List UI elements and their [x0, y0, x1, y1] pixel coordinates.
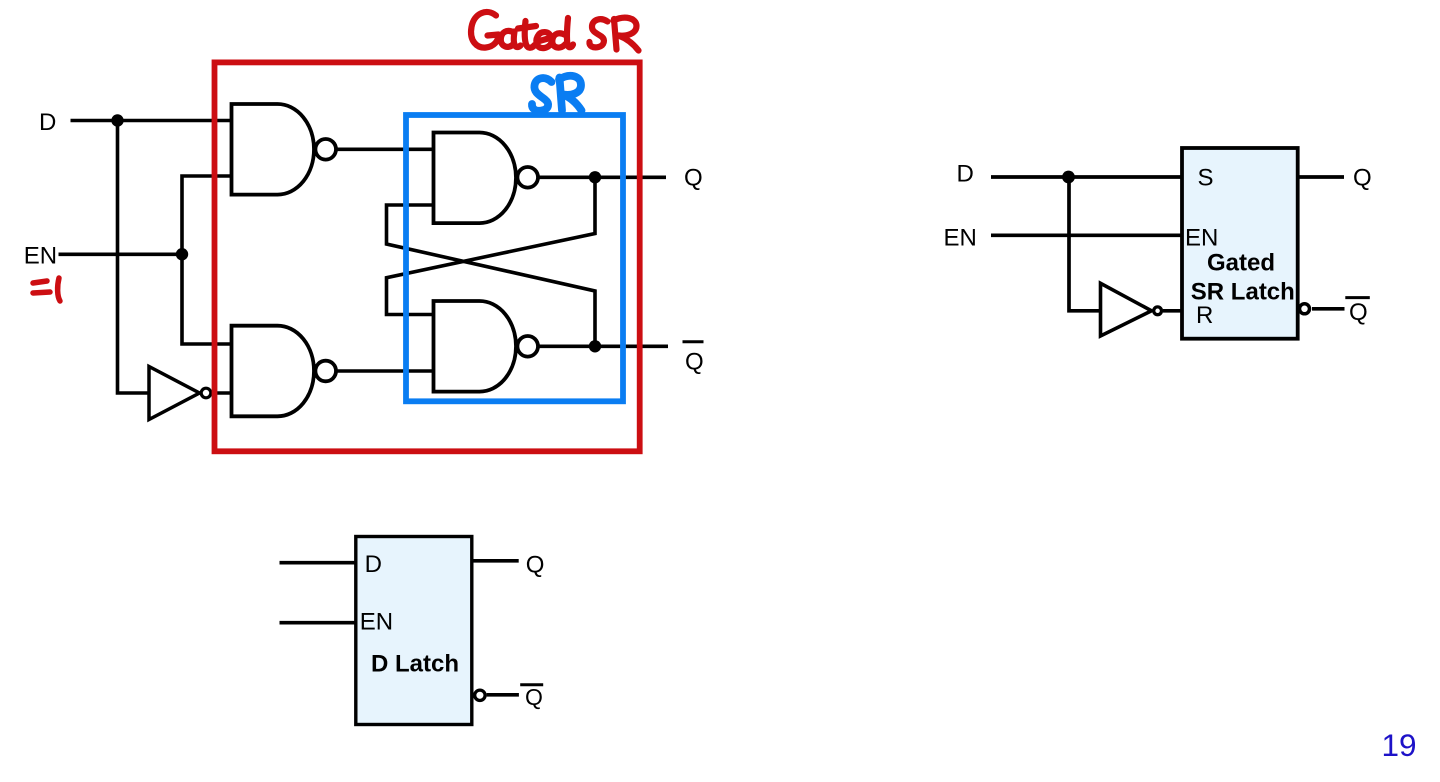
- wire: D branch down to inverter: [118, 121, 150, 394]
- NAND gate G3 bubble: [517, 167, 538, 188]
- wire: EN input (D latch): [280, 621, 356, 625]
- inverter U5 (D complement): [149, 367, 200, 420]
- svg-text:D Latch: D Latch: [371, 651, 459, 678]
- inverter U6 bubble: [1154, 307, 1162, 315]
- wire: Qbar output (block diagram): [1312, 307, 1345, 311]
- svg-text:D: D: [39, 109, 56, 136]
- svg-text:EN: EN: [944, 225, 977, 252]
- wire: Q output (D latch): [472, 559, 519, 563]
- inverter U6 (block diagram): [1101, 283, 1152, 336]
- wire: cross coupling Qbar to G3 input: [387, 205, 596, 346]
- wire: inverter output to G2: [212, 391, 232, 395]
- NAND gate G2 (first stage, bottom): [232, 326, 315, 417]
- junction: D node (block diagram): [1062, 171, 1075, 184]
- red boundary box labelled Gated SR: [215, 62, 640, 451]
- inverter U5 bubble: [201, 388, 211, 398]
- NAND gate G4 (SR latch, bottom): [434, 301, 517, 392]
- svg-text:19: 19: [1382, 727, 1417, 763]
- wire: EN branch to both first-stage NANDs: [182, 176, 231, 344]
- svg-text:Gated: Gated: [1207, 250, 1275, 277]
- junction: D node: [111, 114, 123, 126]
- wire: Q output (block diagram): [1298, 175, 1344, 179]
- NAND gate G3 (SR latch, top): [434, 133, 516, 224]
- wire: D to S pin: [991, 175, 1182, 179]
- wire: D input (D latch): [280, 561, 356, 565]
- block U8: D Latch: [356, 537, 472, 725]
- wire: D branch down to inverter (block diagram): [1069, 177, 1101, 311]
- NAND gate G1 bubble: [315, 139, 336, 160]
- NAND gate G4 bubble: [517, 336, 538, 357]
- wire: Qbar output: [539, 344, 668, 348]
- wire: D input: [71, 119, 232, 123]
- svg-text:S: S: [1198, 165, 1214, 192]
- svg-text:Q: Q: [684, 165, 703, 192]
- wire: cross coupling Q to G4 input: [387, 177, 596, 314]
- block U7: Gated SR Latch: [1182, 148, 1298, 339]
- output bubble Qbar (D latch): [475, 690, 485, 700]
- svg-text:D: D: [365, 551, 382, 578]
- output bubble Qbar (block diagram): [1300, 304, 1310, 314]
- wire: Q output: [539, 176, 666, 180]
- svg-text:EN: EN: [360, 609, 393, 636]
- wire: G2 output to G4 input: [337, 369, 433, 373]
- NAND gate G2 bubble: [315, 361, 336, 382]
- wire: EN to EN pin: [991, 233, 1182, 237]
- svg-text:Q: Q: [1353, 165, 1372, 192]
- junction: EN node: [176, 248, 188, 260]
- svg-text:R: R: [1196, 302, 1213, 329]
- svg-text:D: D: [957, 161, 974, 188]
- label Qbar (D latch) overbar: [520, 683, 543, 686]
- svg-text:Q: Q: [685, 348, 704, 375]
- label Qbar (block diagram) overbar: [1345, 296, 1370, 299]
- svg-text:Q: Q: [525, 684, 543, 710]
- wire: inverter output to R pin: [1163, 309, 1182, 313]
- blue boundary box labelled SR: [406, 115, 623, 401]
- svg-text:Q: Q: [526, 552, 545, 579]
- junction: Q node: [589, 171, 601, 183]
- wire: Qbar output (D latch): [487, 693, 519, 697]
- handwritten title "Gated SR": [471, 12, 638, 50]
- svg-text:EN: EN: [24, 243, 57, 270]
- handwritten annotation "=1" (red): [33, 278, 60, 301]
- junction: Qbar node: [589, 340, 601, 352]
- NAND gate G1 (first stage, top): [232, 104, 315, 195]
- svg-text:Q: Q: [1349, 299, 1368, 326]
- svg-text:EN: EN: [1185, 225, 1218, 252]
- wire: G1 output to G3 input: [337, 148, 433, 152]
- handwritten label "SR" (blue): [532, 76, 582, 111]
- label Qbar (main output) overbar: [683, 340, 704, 343]
- wire: EN input: [59, 253, 183, 257]
